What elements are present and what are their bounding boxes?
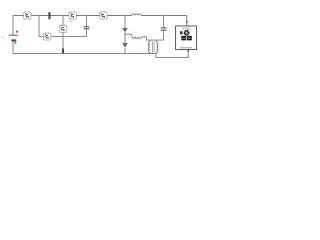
wire x63 mid <box>62 33 64 49</box>
module U3 (in mid horizontal) <box>44 32 51 40</box>
wire top bus <box>13 15 187 17</box>
svg-text:r1: r1 <box>58 49 60 52</box>
wire x163.5 lower <box>163 31 165 41</box>
transformer T1 <box>148 40 158 54</box>
wire L2 to transformer top <box>142 37 164 40</box>
electrolyzer block <box>176 26 197 50</box>
svg-text:L₁: L₁ <box>135 11 137 13</box>
wire drop x125 upper <box>124 16 126 29</box>
wire drop at x39 <box>38 16 40 37</box>
wire drop x163.5 upper <box>163 16 165 28</box>
capacitor C3 <box>161 28 167 30</box>
wire left drop to source <box>12 16 14 36</box>
svg-text:c₂: c₂ <box>168 30 170 32</box>
svg-text:L₂: L₂ <box>135 32 137 34</box>
node x63 bottom <box>62 53 64 55</box>
svg-text:c1: c1 <box>47 10 49 12</box>
capacitor C4 (series, bottom of x63 branch) <box>62 48 64 53</box>
inductor L2 <box>131 34 141 38</box>
svg-text:u₃: u₃ <box>70 20 72 23</box>
svg-text:d₂: d₂ <box>135 47 137 49</box>
svg-text:N₁: N₁ <box>150 37 153 39</box>
wire bottom jog to electrolyzer <box>156 50 188 58</box>
diode D1 <box>123 28 128 32</box>
node x125 bottom <box>124 53 126 55</box>
node + terminal (red) <box>186 21 188 23</box>
wire x86 lower <box>86 29 88 36</box>
node x125 top <box>124 15 126 17</box>
wire source to bottom rail <box>12 41 14 53</box>
wire top-right drop to electrolyzer <box>186 16 188 27</box>
node x163.5 top <box>163 15 165 17</box>
wire mid tap to L2 <box>125 33 131 35</box>
wire x125 mid <box>124 32 126 43</box>
capacitor C1 (series, top bus) <box>48 12 50 19</box>
background <box>0 0 200 60</box>
module U4 (top bus) <box>69 11 76 19</box>
wire drop x63 upper <box>62 16 64 26</box>
wire mid horizontal (x39 to x86) <box>39 36 87 38</box>
node x39 <box>38 15 40 17</box>
wire bottom rail <box>13 53 156 55</box>
capacitor C2 (x86 branch) <box>84 27 90 29</box>
wire drop x86 upper <box>86 16 88 27</box>
node - terminal (blue) <box>187 50 189 52</box>
node x86 <box>86 15 88 17</box>
icon: electrolyzer stack <box>180 30 192 41</box>
module U5 (top bus) <box>100 11 107 19</box>
inductor L1 (top bus) <box>132 14 142 17</box>
module U2 (in vertical branch) <box>59 24 66 32</box>
svg-text:o₁: o₁ <box>129 30 131 32</box>
node x63 top <box>62 15 64 17</box>
wire x125 lower <box>124 48 126 54</box>
svg-text:Electrolyzer: Electrolyzer <box>180 46 192 49</box>
node x125 mid tap <box>124 33 126 35</box>
module U1 <box>24 11 31 19</box>
voltage source V1 (battery) <box>9 31 18 44</box>
diode D2 <box>123 44 128 48</box>
